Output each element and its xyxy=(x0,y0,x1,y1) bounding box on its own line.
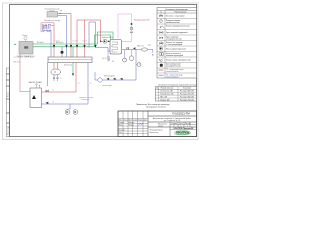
svg-text:газопровод низкого давл.: газопровод низкого давл. xyxy=(14,57,36,59)
svg-text:Т1 d20: Т1 d20 xyxy=(55,41,60,43)
svg-text:Стадия: Стадия xyxy=(171,123,177,125)
svg-text:Т2: Т2 xyxy=(52,102,54,104)
svg-text:Клапан предохранительный: Клапан предохранительный xyxy=(166,24,189,27)
svg-text:ул. Старое кв. д. 10: ул. Старое кв. д. 10 xyxy=(164,120,180,122)
svg-text:ВН d=20: ВН d=20 xyxy=(37,42,44,44)
svg-text:ГВС, кВт: ГВС, кВт xyxy=(160,96,167,98)
svg-text:ХВС ввод В1: ХВС ввод В1 xyxy=(104,76,115,78)
svg-text:Расход 0,60 м3/ч: Расход 0,60 м3/ч xyxy=(180,96,194,98)
svg-text:Дата: Дата xyxy=(144,119,148,121)
svg-text:Котел: Котел xyxy=(23,35,28,37)
svg-text:Т2 - обратный тр-да: Т2 - обратный тр-да xyxy=(166,73,183,76)
svg-text:схема: схема xyxy=(158,126,163,128)
svg-text:Утв.: Утв. xyxy=(119,132,123,134)
svg-text:П-10/2021-ТМ: П-10/2021-ТМ xyxy=(172,112,190,116)
svg-text:Т1: Т1 xyxy=(78,83,80,85)
svg-text:В1: В1 xyxy=(152,55,154,57)
svg-text:Теплый пол, контур: Теплый пол, контур xyxy=(44,19,60,22)
svg-text:Листов: Листов xyxy=(185,123,191,125)
svg-text:электромагнитный: электромагнитный xyxy=(166,37,182,40)
svg-text:отопления: отопления xyxy=(81,99,89,101)
svg-text:№: № xyxy=(160,11,162,14)
svg-text:СЧ-15: СЧ-15 xyxy=(102,58,107,60)
svg-text:Общая, кВт: Общая, кВт xyxy=(160,99,170,101)
svg-text:УЗ: УЗ xyxy=(60,78,62,80)
svg-text:теплоснабжения: теплоснабжения xyxy=(166,71,178,73)
svg-text:счетчик воды: счетчик воды xyxy=(102,85,113,87)
svg-text:с электроприводом: с электроприводом xyxy=(166,44,183,46)
svg-text:ВН d=20: ВН d=20 xyxy=(14,62,21,64)
svg-text:Расход 1,90 м3/ч: Расход 1,90 м3/ч xyxy=(180,99,194,101)
svg-text:ГВС, Т3: ГВС, Т3 xyxy=(137,46,144,48)
svg-text:Расход 0,86 м3/ч: Расход 0,86 м3/ч xyxy=(180,91,194,93)
svg-text:Коллектор: Коллектор xyxy=(64,65,72,67)
svg-text:Бойлер 200л: Бойлер 200л xyxy=(102,36,113,39)
svg-text:расширительный: расширительный xyxy=(166,64,180,67)
svg-text:Рециркуляция ГВС: Рециркуляция ГВС xyxy=(134,20,150,22)
svg-text:Т1: Т1 xyxy=(52,90,54,92)
svg-text:№: № xyxy=(156,87,158,90)
svg-text:Т1 d25: Т1 d25 xyxy=(82,41,87,43)
svg-text:Отопление, кВт: Отопление, кВт xyxy=(160,91,173,93)
svg-text:Кран шаровый муфтовый: Кран шаровый муфтовый xyxy=(166,31,187,34)
svg-text:Котельная: Котельная xyxy=(150,132,159,134)
svg-text:Клапан обратный пружинный: Клапан обратный пружинный xyxy=(166,58,191,61)
svg-text:Петров: Петров xyxy=(128,124,134,126)
svg-text:Т1 - подающий тр-да: Т1 - подающий тр-да xyxy=(166,68,183,71)
svg-text:автоматический: автоматический xyxy=(166,21,179,24)
svg-text:обвязкой арматурой: обвязкой арматурой xyxy=(166,54,183,57)
svg-text:Условные обозначения: Условные обозначения xyxy=(165,9,187,11)
svg-text:монтировать по месту: монтировать по месту xyxy=(146,107,166,109)
svg-text:Подп.: Подп. xyxy=(138,119,143,121)
svg-text:d20: d20 xyxy=(148,45,151,47)
svg-text:БАКСИ ЛУНА 3: БАКСИ ЛУНА 3 xyxy=(29,81,42,84)
svg-text:Т2: Т2 xyxy=(90,83,92,85)
svg-text:Наименование: Наименование xyxy=(175,12,187,14)
svg-text:Лист: Лист xyxy=(179,123,183,125)
svg-text:Теплый пол, кВт: Теплый пол, кВт xyxy=(160,93,174,96)
svg-text:Насос циркуляционный: Насос циркуляционный xyxy=(166,47,186,50)
svg-text:Наименование: Наименование xyxy=(161,88,173,90)
svg-text:теплоснабжения: теплоснабжения xyxy=(166,76,178,78)
svg-text:Т1 d20: Т1 d20 xyxy=(73,41,78,43)
svg-text:ПРОГРЕВ: ПРОГРЕВ xyxy=(176,130,189,134)
svg-text:Вентиль с спускником: Вентиль с спускником xyxy=(166,15,185,17)
svg-text:Расход 0,43 м3/ч: Расход 0,43 м3/ч xyxy=(180,94,194,96)
svg-text:Пров.: Пров. xyxy=(119,124,124,126)
svg-text:Значение: Значение xyxy=(183,88,191,90)
